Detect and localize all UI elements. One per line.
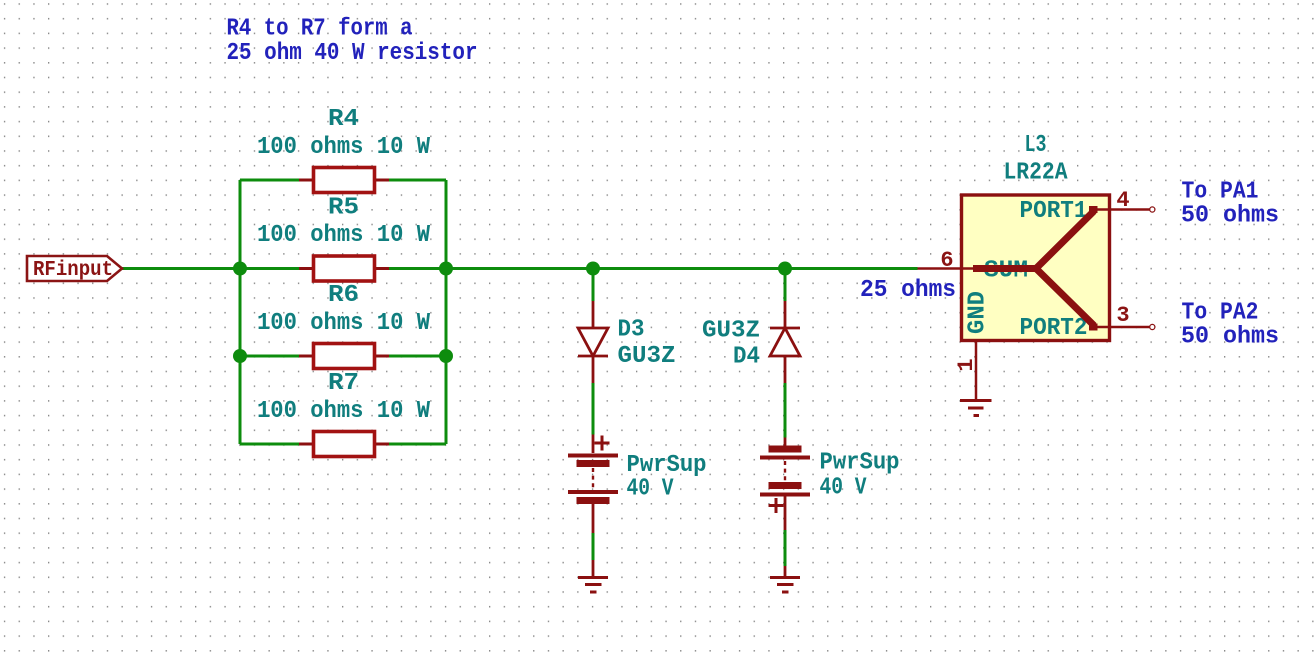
wire main horizontal RFinput to SUM [122, 267, 301, 270]
pin name SUM [984, 258, 1028, 285]
svg-text:GU3Z: GU3Z [702, 318, 760, 345]
note 25 ohm 40 W resistor [227, 40, 478, 67]
svg-text:RFinput: RFinput [33, 259, 113, 282]
pin 4 PORT1 [1096, 188, 1155, 213]
svg-text:1: 1 [954, 358, 979, 371]
wire D4 battery to ground [784, 530, 787, 566]
pin 6 SUM [918, 248, 976, 273]
label PwrSup (left) [627, 452, 707, 479]
resistor R4 [299, 168, 389, 193]
diode D3 [578, 301, 608, 383]
ground (L3) [960, 401, 992, 416]
svg-text:100 ohms 10 W: 100 ohms 10 W [257, 398, 431, 425]
battery PwrSup (right) [760, 438, 810, 531]
junction at right bus / main wire [439, 262, 453, 276]
value R4 100 ohms 10 W [257, 134, 431, 161]
junction at right bus R6 row [439, 349, 453, 363]
wire left bus vertical [239, 180, 242, 444]
note 50 ohms (PA1) [1181, 203, 1279, 230]
diode D4 [770, 301, 800, 383]
wire D3 battery to ground [592, 533, 595, 560]
pin 1 GND [954, 341, 979, 400]
svg-text:4: 4 [1116, 188, 1129, 213]
wire main right of R5 [387, 267, 918, 270]
label R4 [328, 106, 359, 133]
wire R6 row right [387, 355, 446, 358]
resistor R5 [299, 256, 389, 281]
svg-text:GU3Z: GU3Z [618, 343, 676, 370]
junction at D3 branch [586, 262, 600, 276]
svg-text:L3: L3 [1025, 132, 1047, 159]
note 50 ohms (PA2) [1181, 324, 1279, 351]
note To PA1 [1182, 179, 1259, 206]
label D3 [618, 317, 645, 344]
label D4 [733, 344, 760, 371]
junction at left bus / main wire [233, 262, 247, 276]
svg-text:D3: D3 [618, 317, 645, 344]
ground (right branch) [770, 566, 800, 592]
svg-text:To PA2: To PA2 [1182, 300, 1259, 327]
svg-text:100 ohms 10 W: 100 ohms 10 W [257, 134, 431, 161]
svg-text:LR22A: LR22A [1004, 160, 1069, 187]
value R7 100 ohms 10 W [257, 398, 431, 425]
pin 3 PORT2 [1096, 303, 1155, 330]
label L3 [1025, 132, 1047, 159]
resistor R7 [299, 432, 389, 457]
svg-text:R5: R5 [328, 195, 359, 222]
junction at D4 branch [778, 262, 792, 276]
pin name PORT2 [1020, 315, 1088, 342]
svg-text:PORT1: PORT1 [1020, 198, 1088, 225]
label R7 [328, 370, 359, 397]
wire D3 branch upper [592, 269, 595, 302]
value LR22A [1004, 160, 1069, 187]
wire R4 row right [387, 179, 446, 182]
splitter U L3 body [962, 195, 1110, 341]
value GU3Z (D4) [702, 318, 760, 345]
value 40 V (right) [820, 475, 867, 502]
note To PA2 [1182, 300, 1259, 327]
wire D4 branch upper [784, 269, 787, 302]
value 40 V (left) [627, 476, 674, 503]
svg-text:100 ohms 10 W: 100 ohms 10 W [257, 310, 431, 337]
svg-text:25 ohms: 25 ohms [860, 277, 956, 304]
svg-text:40 V: 40 V [820, 475, 867, 502]
wire R7 row [240, 443, 301, 446]
svg-text:PwrSup: PwrSup [820, 450, 900, 477]
junction at left bus R6 row [233, 349, 247, 363]
svg-text:25 ohm 40 W resistor: 25 ohm 40 W resistor [227, 40, 478, 67]
svg-text:R6: R6 [328, 282, 359, 309]
battery PwrSup (left) [568, 435, 618, 534]
pin name PORT1 [1020, 198, 1088, 225]
svg-text:R4 to R7 form a: R4 to R7 form a [227, 16, 413, 43]
wire D3 to battery [592, 383, 595, 435]
svg-text:To PA1: To PA1 [1182, 179, 1259, 206]
svg-text:40 V: 40 V [627, 476, 674, 503]
wire R7 row right [387, 443, 446, 446]
svg-text:3: 3 [1116, 303, 1129, 328]
wire R6 row [240, 355, 301, 358]
splitter Y graphic [973, 210, 1098, 328]
svg-text:PORT2: PORT2 [1020, 315, 1088, 342]
wire right bus vertical [445, 180, 448, 444]
global label RFinput [27, 256, 122, 282]
svg-text:R7: R7 [328, 370, 359, 397]
value R5 100 ohms 10 W [257, 222, 431, 249]
svg-text:50 ohms: 50 ohms [1181, 324, 1279, 351]
wire D4 to battery [784, 383, 787, 438]
svg-text:R4: R4 [328, 106, 359, 133]
label R5 [328, 195, 359, 222]
svg-text:6: 6 [940, 248, 953, 273]
wire R4 row [240, 179, 301, 182]
resistor R6 [299, 344, 389, 369]
value R6 100 ohms 10 W [257, 310, 431, 337]
svg-text:GND: GND [965, 291, 992, 334]
svg-text:D4: D4 [733, 344, 760, 371]
svg-text:50 ohms: 50 ohms [1181, 203, 1279, 230]
label PwrSup (right) [820, 450, 900, 477]
label R6 [328, 282, 359, 309]
pin name GND (vertical) [965, 291, 992, 334]
note R4 to R7 form a [227, 16, 413, 43]
ground (left branch) [578, 560, 608, 592]
net label 25 ohms [860, 277, 956, 304]
value GU3Z (D3) [618, 343, 676, 370]
svg-text:100 ohms 10 W: 100 ohms 10 W [257, 222, 431, 249]
